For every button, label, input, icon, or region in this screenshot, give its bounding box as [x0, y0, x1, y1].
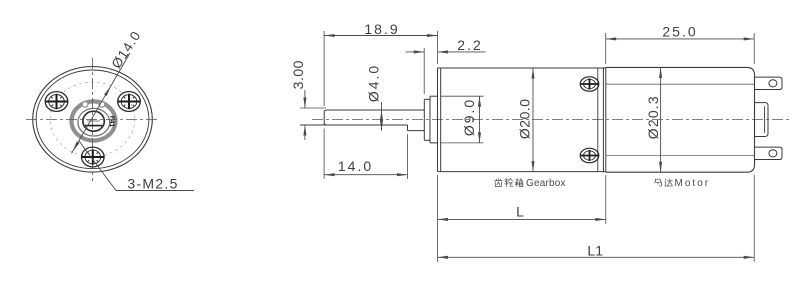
svg-text:2.2: 2.2: [457, 37, 482, 53]
svg-text:L: L: [516, 204, 524, 220]
svg-text:3.00: 3.00: [290, 60, 306, 89]
svg-text:Motor: Motor: [675, 178, 711, 189]
svg-text:Ø9.0: Ø9.0: [461, 98, 477, 136]
svg-text:3-M2.5: 3-M2.5: [127, 176, 178, 192]
svg-text:Ø20.0: Ø20.0: [517, 98, 533, 139]
svg-text:Ø20.3: Ø20.3: [645, 95, 661, 139]
svg-text:Gearbox: Gearbox: [526, 178, 566, 189]
svg-text:25.0: 25.0: [662, 23, 697, 39]
svg-text:Ø4.0: Ø4.0: [366, 64, 382, 102]
svg-text:14.0: 14.0: [338, 158, 373, 174]
svg-text:18.9: 18.9: [364, 21, 399, 37]
svg-text:L1: L1: [587, 243, 603, 259]
svg-text:F41: F41: [108, 116, 115, 128]
